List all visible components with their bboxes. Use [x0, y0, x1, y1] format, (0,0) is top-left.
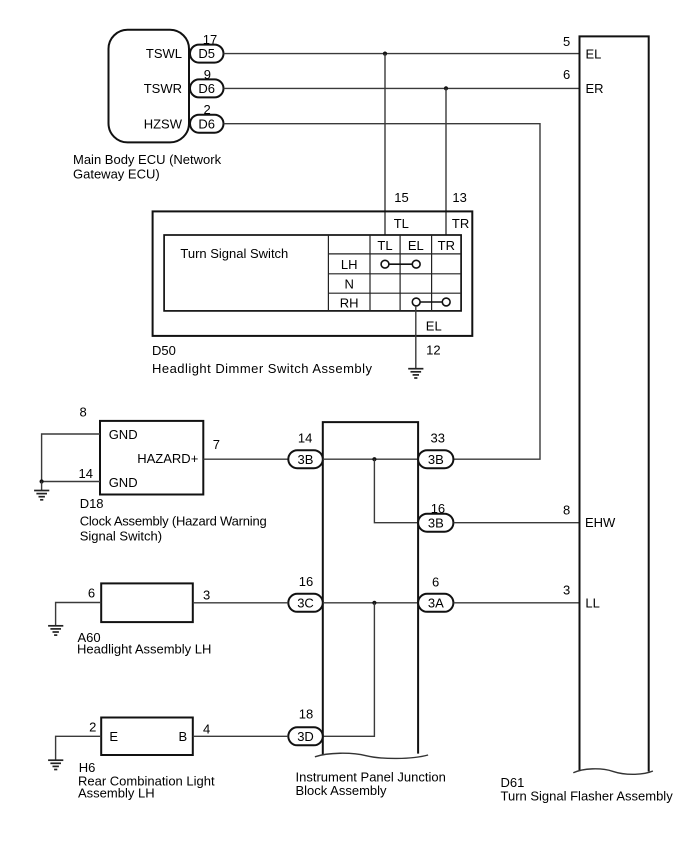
wire branch to 3D [323, 603, 375, 737]
connector 3A pin 6 (right) [418, 574, 453, 611]
svg-text:TL: TL [377, 238, 392, 253]
svg-text:7: 7 [213, 437, 220, 452]
junction block box (Instrument Panel Junction Block) [323, 422, 418, 755]
svg-text:17: 17 [203, 32, 217, 47]
wire clock GND pin 8 [42, 434, 100, 482]
svg-text:TR: TR [452, 216, 469, 231]
wire 3C to 3A inside junction block [323, 602, 418, 604]
svg-text:D18: D18 [80, 496, 104, 511]
svg-text:Gateway ECU): Gateway ECU) [73, 167, 160, 182]
wire headlight pin 6 to ground [56, 603, 102, 626]
wire 3B pin 16 to flasher EHW pin 8 [453, 522, 579, 524]
wire branch to 3B pin 16 [374, 459, 418, 523]
svg-text:6: 6 [432, 574, 439, 589]
wire EL: D5 to flasher pin 5 [224, 53, 580, 55]
svg-text:Headlight Assembly LH: Headlight Assembly LH [77, 641, 211, 656]
wire rear light pin 4 to 3D [193, 735, 288, 737]
svg-text:Assembly LH: Assembly LH [78, 785, 155, 800]
svg-text:D6: D6 [198, 81, 215, 96]
svg-text:Clock Assembly (Hazard Warning: Clock Assembly (Hazard Warning [80, 514, 267, 529]
svg-text:16: 16 [431, 501, 445, 516]
label Instrument Panel Junction Block Assembly [296, 770, 446, 799]
node junction on ER wire [444, 86, 448, 90]
turn signal switch S1 table [164, 235, 461, 311]
svg-text:TSWR: TSWR [144, 81, 182, 96]
svg-text:13: 13 [452, 190, 466, 205]
junction block bottom break wave [315, 753, 428, 758]
connector 3D pin 18 (left) [288, 707, 323, 746]
svg-text:14: 14 [79, 466, 93, 481]
svg-text:RH: RH [340, 295, 359, 310]
svg-text:GND: GND [109, 475, 138, 490]
wire HZSW to junction block 3B pin 33 [224, 124, 541, 460]
label D61 Turn Signal Flasher Assembly [501, 775, 674, 804]
label D50 Headlight Dimmer Switch Assembly [152, 343, 373, 376]
switch contact LH row TL-EL [381, 260, 420, 268]
flasher bottom break wave [573, 769, 653, 774]
svg-text:4: 4 [203, 721, 210, 736]
svg-text:EL: EL [408, 238, 424, 253]
connector 3B pin 16 (right) [418, 501, 453, 532]
node junction inside block upper [372, 457, 376, 461]
svg-text:3D: 3D [297, 729, 314, 744]
wire ER: D6 to flasher pin 6 [224, 87, 580, 89]
svg-text:16: 16 [299, 574, 313, 589]
svg-text:18: 18 [299, 707, 313, 722]
connector 3C pin 16 (left) [288, 574, 323, 612]
svg-text:B: B [179, 729, 188, 744]
svg-text:HAZARD+: HAZARD+ [137, 451, 198, 466]
svg-text:3B: 3B [428, 515, 444, 530]
connector 3B pin 14 (left) [288, 430, 323, 468]
svg-text:EL: EL [586, 46, 602, 61]
label Main Body ECU [73, 152, 222, 182]
svg-text:Main Body ECU (Network: Main Body ECU (Network [73, 152, 222, 167]
label A60 Headlight Assembly LH [77, 630, 211, 656]
clock assembly D18 box [79, 405, 220, 495]
wire 3A to flasher LL pin 3 [453, 602, 579, 604]
connector D6 pin 9 (TSWR) [190, 67, 224, 98]
node junction inside block lower [372, 601, 376, 605]
ground for clock assembly [34, 491, 49, 500]
svg-text:EL: EL [426, 318, 442, 333]
svg-text:8: 8 [563, 502, 570, 517]
svg-text:8: 8 [80, 405, 87, 420]
wire 3B to 3B inside junction block [323, 458, 418, 460]
flasher pin names and numbers [563, 34, 616, 611]
svg-text:33: 33 [431, 430, 445, 445]
dimmer switch D50 outer box [153, 211, 473, 336]
wire TR vertical to dimmer switch [446, 88, 467, 235]
svg-text:E: E [109, 729, 118, 744]
wire HAZARD+ pin 7 to junction block 3B [203, 458, 288, 460]
svg-text:Signal Switch): Signal Switch) [80, 528, 162, 543]
rear combination light H6 box [89, 718, 210, 756]
node junction clock grounds [40, 479, 44, 483]
ground for dimmer switch EL [408, 369, 423, 378]
svg-text:ER: ER [586, 81, 604, 96]
svg-text:15: 15 [394, 190, 408, 205]
svg-text:9: 9 [204, 67, 211, 82]
ground for rear light [48, 760, 63, 769]
svg-text:2: 2 [204, 102, 211, 117]
svg-text:LH: LH [341, 257, 358, 272]
connector D6 pin 2 (HZSW) [190, 102, 224, 133]
svg-text:N: N [345, 276, 354, 291]
label H6 Rear Combination Light Assembly LH [78, 760, 215, 801]
svg-text:12: 12 [426, 343, 440, 358]
svg-text:TL: TL [394, 216, 409, 231]
svg-text:HZSW: HZSW [144, 116, 183, 131]
wire to clock ground [41, 482, 43, 491]
svg-text:2: 2 [89, 720, 96, 735]
svg-text:6: 6 [88, 586, 95, 601]
svg-text:Block Assembly: Block Assembly [296, 783, 388, 798]
svg-text:5: 5 [563, 34, 570, 49]
wire clock GND pin 14 [42, 481, 100, 483]
switch contact RH row EL-TR [412, 298, 450, 306]
svg-text:D50: D50 [152, 343, 176, 358]
svg-text:Turn Signal Switch: Turn Signal Switch [180, 246, 288, 261]
svg-text:GND: GND [109, 427, 138, 442]
svg-text:TSWL: TSWL [146, 46, 182, 61]
connector 3B pin 33 (right) [418, 430, 453, 468]
svg-text:Turn Signal Flasher Assembly: Turn Signal Flasher Assembly [501, 788, 674, 803]
node junction on EL wire [383, 52, 387, 56]
wire EL pin 12 to ground [416, 306, 442, 369]
svg-text:14: 14 [298, 430, 312, 445]
svg-text:3: 3 [563, 583, 570, 598]
wire headlight pin 3 to 3C [193, 602, 288, 604]
headlight assembly A60 box [88, 583, 210, 622]
svg-text:D5: D5 [198, 46, 215, 61]
flasher D61 box (Turn Signal Flasher) [580, 36, 649, 771]
wire rear light pin 2 to ground [56, 736, 102, 760]
ground for headlight [48, 626, 63, 635]
label D18 Clock Assembly [80, 496, 267, 543]
svg-text:6: 6 [563, 67, 570, 82]
svg-text:LL: LL [585, 596, 599, 611]
svg-text:3C: 3C [297, 596, 314, 611]
connector D5 pin 17 (TSWL) [190, 32, 224, 63]
svg-text:Headlight Dimmer Switch Assemb: Headlight Dimmer Switch Assembly [152, 361, 373, 376]
svg-text:TR: TR [438, 238, 455, 253]
ECU U1 Main Body ECU box [109, 30, 190, 143]
svg-text:3B: 3B [428, 452, 444, 467]
svg-text:EHW: EHW [585, 515, 616, 530]
svg-text:3A: 3A [428, 596, 444, 611]
svg-text:3B: 3B [298, 452, 314, 467]
svg-text:D6: D6 [198, 116, 215, 131]
wire TL vertical to dimmer switch [385, 54, 409, 235]
svg-text:3: 3 [203, 588, 210, 603]
